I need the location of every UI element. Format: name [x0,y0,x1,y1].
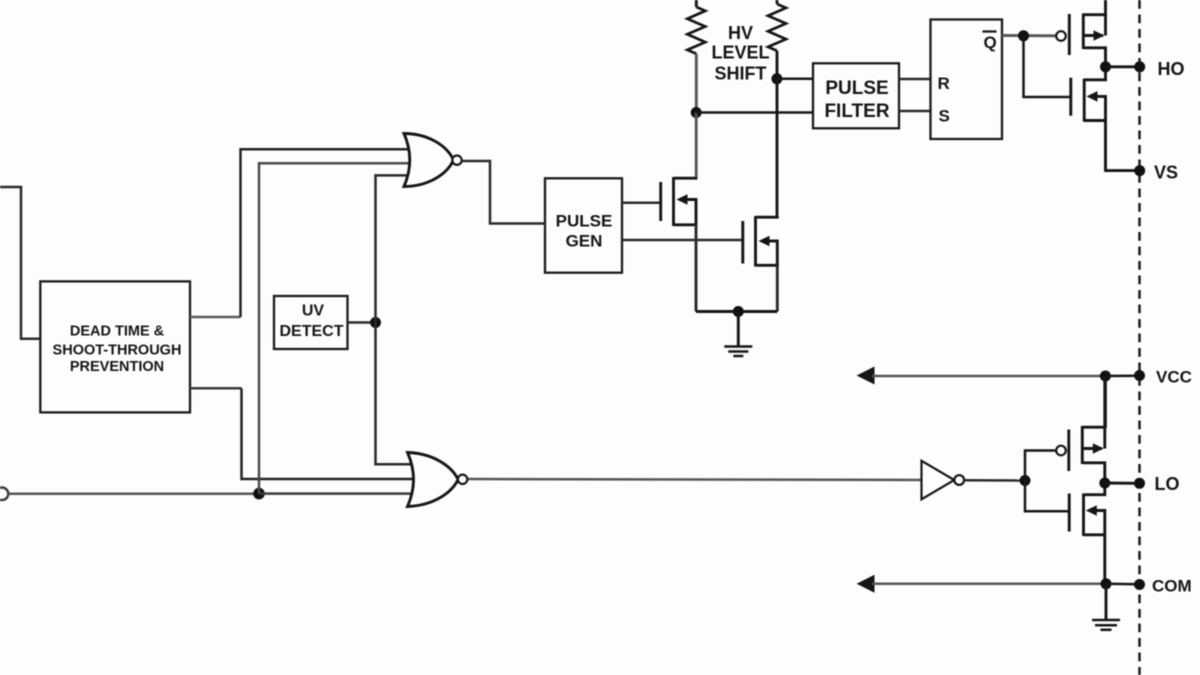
wire COM node to pin [1106,583,1140,586]
svg-text:R: R [938,74,950,93]
transistor M1 [661,177,696,226]
node Q gate junction [1018,30,1029,41]
wire UV net to NOR2 input 1 [376,323,413,465]
wire LO node to pin [1105,482,1140,485]
svg-text:DETECT: DETECT [280,323,344,340]
svg-text:HO: HO [1158,59,1185,79]
node LIN junction [253,488,265,500]
wire UV net to NOR1 input 3 [376,175,410,322]
svg-text:S: S [939,106,950,125]
NOR gate U1 (top) [404,134,462,187]
node LO gate junction [1020,475,1031,486]
resistor R1 [687,0,705,54]
node ground junction [733,306,744,317]
wire HIN input top-left [0,187,40,339]
wire vertical drop to NOR2 input 2 [242,388,413,479]
wire DT top output to NOR1 input 1 [190,316,241,319]
node VCC junction [1100,371,1111,382]
wire ground rail [696,310,777,313]
svg-text:COM: COM [1152,577,1192,596]
node LO pin [1134,478,1145,489]
svg-text:PREVENTION: PREVENTION [70,359,164,375]
svg-text:LEVEL: LEVEL [711,42,769,62]
wire node B to PULSE FILTER (S path) [696,111,813,114]
svg-text:SHOOT-THROUGH: SHOOT-THROUGH [53,342,182,358]
transistor Q2 NMOS (HO low side) [1071,67,1140,171]
transistor Q4 NMOS (LO low side) [1069,483,1105,584]
inverter U4 [922,461,965,500]
node HO pin [1134,61,1145,72]
wire LIN node to NOR2 input 3 [259,492,414,495]
wire VCC node to pin [1105,374,1139,377]
label HO [1158,59,1185,79]
wire M1 source down to ground rail [695,225,698,312]
label COM [1152,577,1192,596]
box PULSE FILTER [813,63,899,128]
wire node A to PULSE FILTER (R path) [777,78,813,81]
label HV LEVEL SHIFT [711,23,769,84]
wire LIN node up to NOR1 input 2 [259,163,411,493]
node VCC pin [1134,370,1145,381]
node HO junction [1100,61,1111,72]
NOR gate U2 (bottom) [408,453,468,507]
node COM junction [1101,578,1112,589]
wire gate node down to NMOS gate (HO) [1024,36,1071,97]
wire gate node up to PMOS bubble [1025,451,1056,481]
svg-text:FILTER: FILTER [824,101,889,122]
wire PULSE FILTER to R input [899,78,931,81]
wire LIN to node [9,492,260,495]
svg-text:VS: VS [1154,163,1178,183]
wire node A down to M2 drain [776,79,779,216]
ground symbol (COM) [1092,584,1120,630]
latch U3 (RS latch box) [931,20,1003,140]
transistor Q1 PMOS (HO high side) [1056,0,1105,67]
label VCC [1156,368,1192,387]
resistor R2 [768,0,786,51]
svg-text:HV: HV [728,23,753,43]
svg-text:LO: LO [1155,474,1180,494]
wire Q output to gate node [1002,34,1056,37]
wire inverter output to gate node [964,479,1025,482]
wire COM rail [872,583,1106,586]
wire HO node to pin [1106,65,1140,68]
wire R1 bottom to node B [695,54,698,113]
transistor M2 [743,216,778,267]
svg-text:PULSE: PULSE [825,78,888,99]
box UV DETECT [274,296,348,349]
node LO junction [1099,478,1110,489]
arrow COM rail [857,575,875,593]
IC boundary dashed line [1138,0,1141,675]
wire NOR2 output to inverter [468,479,922,480]
wire DT bottom output to NOR2 input 2 [190,387,242,390]
wire R2 bottom to node A [776,51,779,79]
node COM pin [1134,579,1145,590]
node VS pin [1134,165,1145,176]
wire VCC node down to PMOS drain [1104,376,1107,428]
ground symbol (mid) [724,312,752,357]
svg-text:VCC: VCC [1156,368,1192,387]
input terminal LIN [0,488,8,501]
wire M2 source down to ground rail [776,265,779,311]
wire gate node down to NMOS gate [1025,481,1069,512]
wire VCC rail [872,375,1105,378]
wire vertical riser to NOR1 input 1 [241,149,411,317]
svg-text:UV: UV [302,303,325,320]
arrow VCC rail [857,367,875,385]
svg-text:GEN: GEN [566,232,603,251]
wire UV DETECT output [348,321,376,324]
box PULSE GEN [545,178,622,272]
node A junction [771,73,782,84]
label VS [1154,163,1178,183]
svg-text:DEAD TIME &: DEAD TIME & [70,324,165,340]
transistor Q3 PMOS (LO high side) [1056,376,1105,483]
node B junction [691,107,702,118]
node UV junction [370,317,381,328]
wire node B down to M1 drain [695,113,698,178]
wire NOR1 output to PULSE GEN [462,161,545,224]
svg-text:Q: Q [984,33,997,52]
wire PULSE GEN bottom output to M2 gate [622,239,743,242]
box DEAD TIME & SHOOT-THROUGH PREVENTION [40,281,190,412]
wire PULSE GEN top output to M1 gate [622,201,661,204]
label LO [1155,474,1180,494]
svg-text:SHIFT: SHIFT [715,64,767,84]
svg-text:PULSE: PULSE [556,212,613,231]
wire PULSE FILTER to S input [899,110,931,113]
